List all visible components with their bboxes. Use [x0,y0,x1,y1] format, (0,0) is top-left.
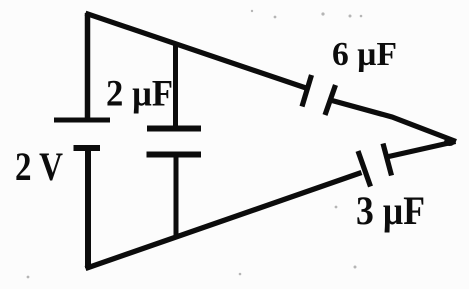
battery V1 short plate (-) [74,145,101,151]
wire: from right apex to 3uF right plate [387,142,456,158]
svg-text:2 µF: 2 µF [106,74,173,115]
wire: battery bottom lead down to bottom vertex [85,148,91,268]
svg-text:3 µF: 3 µF [356,188,425,233]
node: right apex junction blob [444,138,455,146]
capacitor C3 3uF left plate [358,151,371,187]
battery V1 long plate (+) [54,118,110,123]
wire: bottom edge from bottom vertex to 3uF left plate [86,173,362,269]
wire: 2uF top lead from top edge junction [173,42,178,128]
wire: battery top lead, left vertical [85,13,91,118]
capacitor C3 3uF right plate [383,144,392,176]
capacitor C2 2uF top plate [147,126,201,132]
capacitor C1 6uF right plate [325,85,336,115]
svg-text:6 µF: 6 µF [332,36,397,73]
scan noise specks [27,10,363,279]
capacitor C1 6uF left plate [302,75,312,107]
wire: 2uF bottom lead down to bottom edge junction [174,155,179,236]
wire: top edge from top-left vertex to 6uF left plate [86,13,308,88]
svg-text:2 V: 2 V [15,144,63,189]
capacitor C2 2uF bottom plate [147,152,202,158]
wire: from 6uF right plate to right apex [332,101,456,142]
